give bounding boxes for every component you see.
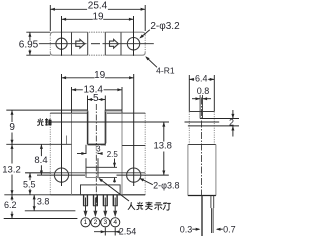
front view body right edge (dotted) xyxy=(144,113,146,195)
svg-text:9: 9 xyxy=(9,122,15,133)
svg-text:6.2: 6.2 xyxy=(4,200,17,210)
ext slot bottom left xyxy=(6,143,71,145)
dim 19 front xyxy=(62,77,134,79)
ext pin tip left xyxy=(4,218,78,220)
faint inner wall stub xyxy=(66,136,68,145)
svg-text:25.4: 25.4 xyxy=(88,1,108,12)
slot bottom xyxy=(88,143,106,145)
dim 13.2 xyxy=(11,144,13,163)
dim 19 (top) xyxy=(62,18,134,20)
top view horizontal centerline xyxy=(36,43,87,45)
side slit bottom line xyxy=(200,118,239,120)
dim 25.4 xyxy=(49,5,51,31)
dim 2 xyxy=(232,110,234,119)
svg-text:2-φ3.2: 2-φ3.2 xyxy=(150,21,180,32)
ext step left xyxy=(25,172,50,174)
side view lower sides xyxy=(187,145,189,196)
svg-text:3: 3 xyxy=(103,219,107,226)
side view top edge xyxy=(189,111,214,113)
side optical axis xyxy=(185,121,220,123)
right mounting hole front xyxy=(127,168,141,182)
side pin right (0.7) xyxy=(210,196,212,209)
svg-text:2.5: 2.5 xyxy=(107,150,119,159)
side view centerline xyxy=(200,98,202,196)
hole vertical centerlines (19 ext) xyxy=(61,74,63,186)
svg-text:19: 19 xyxy=(94,70,106,81)
svg-text:2-φ3.8: 2-φ3.8 xyxy=(153,181,179,191)
svg-text:0.3: 0.3 xyxy=(180,224,193,234)
dim 8.4 xyxy=(40,144,42,175)
dim 3 xyxy=(77,153,86,155)
svg-text:4-R1: 4-R1 xyxy=(156,66,175,76)
side view bottom xyxy=(188,195,216,197)
indicator box ext stubs xyxy=(85,145,87,154)
svg-text:3: 3 xyxy=(96,144,101,153)
dim 2.5 xyxy=(99,166,118,168)
svg-text:4: 4 xyxy=(113,219,117,226)
dim 6.2 xyxy=(11,195,13,201)
step line xyxy=(25,172,145,174)
hole centerline horizontal left xyxy=(37,174,85,176)
side view step xyxy=(188,144,216,146)
label nyuukou hyoujitou (kanji) xyxy=(128,202,171,211)
dim 6.95 xyxy=(26,31,50,33)
right internal step line xyxy=(122,145,145,147)
svg-text:13.2: 13.2 xyxy=(2,165,21,176)
top view left mounting hole xyxy=(56,38,67,49)
ext 211 left xyxy=(25,210,76,212)
svg-text:5: 5 xyxy=(93,93,99,104)
top view body outline xyxy=(50,32,145,55)
body centerline to bottom xyxy=(95,144,97,205)
top view right mounting hole xyxy=(127,38,139,50)
side 125 line xyxy=(188,125,239,127)
dim 5.5 xyxy=(29,173,31,195)
label 2-phi3.2 xyxy=(140,30,150,38)
svg-text:3.8: 3.8 xyxy=(37,197,50,207)
leader indicator lamp xyxy=(99,179,129,201)
ext body bottom left xyxy=(4,194,50,196)
svg-text:0.8: 0.8 xyxy=(197,86,210,96)
front view shoulder/top line xyxy=(50,112,87,114)
svg-text:2: 2 xyxy=(94,219,98,226)
shading below tower tops and slot edges xyxy=(72,110,88,112)
svg-text:5.5: 5.5 xyxy=(23,180,36,190)
svg-text:1: 1 xyxy=(84,219,88,226)
svg-text:2.54: 2.54 xyxy=(119,227,137,237)
left tower xyxy=(72,109,88,111)
pin circled numbers xyxy=(81,218,90,227)
dim 9 xyxy=(11,110,13,122)
dim 13.4 xyxy=(71,87,73,110)
terminal plate xyxy=(81,185,121,195)
left mounting hole front xyxy=(54,168,68,182)
hole centerline horizontal right xyxy=(117,174,169,176)
svg-text:2: 2 xyxy=(229,118,234,128)
indicator box xyxy=(85,158,87,177)
label 4-R1 xyxy=(146,57,157,67)
dim 13.8 xyxy=(163,122,165,142)
front view body left edge (dotted) xyxy=(49,113,51,195)
dim 3.8 xyxy=(33,195,35,211)
pins front view xyxy=(83,195,85,206)
direction arrow 1 (outline) xyxy=(76,39,85,48)
dim 5 xyxy=(87,96,89,111)
direction arrow 2 (outline) xyxy=(110,39,119,48)
side pin left (0.3) xyxy=(201,196,203,237)
ext tower top left xyxy=(6,109,71,111)
side view slit xyxy=(199,95,201,119)
svg-text:0.7: 0.7 xyxy=(223,224,236,234)
svg-text:6.95: 6.95 xyxy=(19,39,39,50)
dim 2.54 xyxy=(104,228,106,236)
inner block walls xyxy=(71,113,73,195)
optical axis line xyxy=(51,121,170,123)
optical axis label kouji (kanji) xyxy=(37,118,51,125)
svg-text:6.4: 6.4 xyxy=(195,74,208,84)
svg-text:19: 19 xyxy=(92,11,104,22)
top view block division lines xyxy=(71,32,73,55)
side view upper sides (dotted) xyxy=(188,112,190,145)
dim 6.4 xyxy=(188,75,190,112)
svg-text:13.8: 13.8 xyxy=(153,141,172,152)
right tower xyxy=(105,109,122,111)
front view bottom edge xyxy=(50,194,145,196)
label 2-phi3.8 xyxy=(140,179,153,185)
svg-text:8.4: 8.4 xyxy=(34,155,47,166)
top view hole vertical centerlines (19-dim extensions) xyxy=(61,16,63,56)
slot vertical centerline xyxy=(95,104,97,144)
